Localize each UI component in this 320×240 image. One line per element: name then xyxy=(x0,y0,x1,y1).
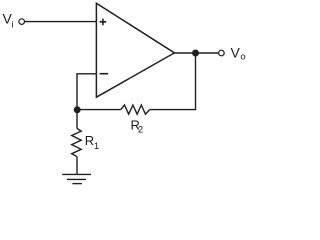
ground xyxy=(62,174,91,183)
svg-text:i: i xyxy=(11,20,13,31)
node A feedback junction xyxy=(74,106,81,113)
wire op-amp output xyxy=(174,52,218,54)
resistor R1 xyxy=(72,128,82,156)
wire node A to R1 xyxy=(76,110,78,129)
op-amp U1 xyxy=(96,3,174,97)
wire R1 to ground xyxy=(76,157,78,175)
wire R2 to output node xyxy=(150,53,196,110)
label R2 xyxy=(131,117,144,135)
wire Vi to op-amp noninverting input xyxy=(25,21,97,23)
node Vo output terminal xyxy=(219,50,225,56)
label Vi xyxy=(3,10,14,30)
wire node A to R2 xyxy=(77,109,121,111)
label R1 xyxy=(85,133,99,152)
resistor R2 xyxy=(121,105,150,114)
svg-text:o: o xyxy=(240,52,245,63)
svg-text:1: 1 xyxy=(94,141,99,152)
label Vo xyxy=(231,45,246,63)
wire inverting input to node A xyxy=(77,74,97,110)
pin plus noninverting xyxy=(100,19,107,26)
svg-text:V: V xyxy=(231,45,241,61)
node output junction xyxy=(192,50,199,57)
node Vi input terminal xyxy=(19,19,25,25)
svg-text:2: 2 xyxy=(138,124,143,135)
svg-text:R: R xyxy=(85,133,94,148)
pin minus inverting xyxy=(100,73,109,75)
